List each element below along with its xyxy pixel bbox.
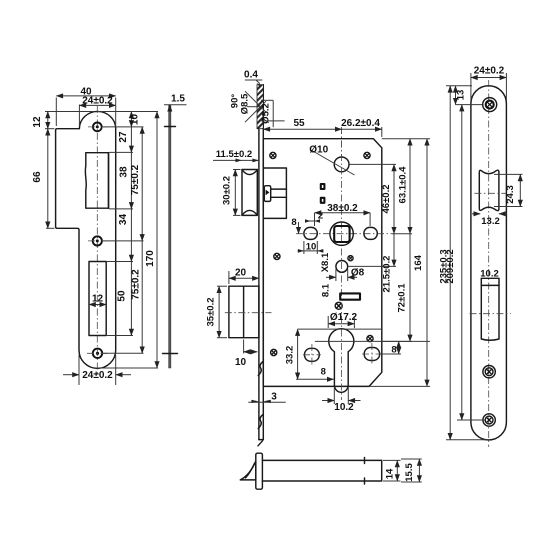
latch cutout inner line xyxy=(108,153,110,209)
svg-text:24.3: 24.3 xyxy=(505,185,516,204)
svg-text:24±0.2: 24±0.2 xyxy=(474,66,505,77)
dim 55 / 26.2 top xyxy=(341,127,343,156)
case screw right of cylinder xyxy=(367,336,373,342)
strip bottom hatch tick xyxy=(258,441,263,446)
dim 8 (hub left) xyxy=(298,222,300,234)
latch body side xyxy=(262,460,381,481)
svg-text:0.4: 0.4 xyxy=(244,70,258,81)
dim 46±0.2 xyxy=(393,164,395,233)
faceplate strip xyxy=(258,85,260,440)
dim 20 xyxy=(228,271,230,284)
side strip ticks xyxy=(165,126,176,128)
latch front arcs xyxy=(242,170,257,175)
svg-text:10: 10 xyxy=(235,357,247,368)
oval crosshairs xyxy=(303,354,321,356)
svg-text:20: 20 xyxy=(235,268,247,279)
dim 11.5±0.2 xyxy=(213,159,259,161)
svg-text:21.5±0.2: 21.5±0.2 xyxy=(382,256,393,293)
follower spring detail xyxy=(264,186,270,202)
dia 5.2 hole lines xyxy=(261,99,273,101)
svg-text:75±0.2: 75±0.2 xyxy=(130,164,141,195)
dim 24.3 xyxy=(494,173,523,175)
svg-text:46±0.2: 46±0.2 xyxy=(381,185,392,214)
dim 72±0.1 xyxy=(409,234,411,342)
svg-text:2: 2 xyxy=(318,211,323,222)
face plate outline xyxy=(471,86,507,440)
svg-text:30±0.2: 30±0.2 xyxy=(222,176,233,205)
svg-text:33.2: 33.2 xyxy=(285,346,296,365)
dim 3 faceplate xyxy=(248,401,285,403)
dim 38±0.2 xyxy=(369,213,371,226)
case screw low-left xyxy=(271,349,277,355)
dim 2 xyxy=(314,213,316,226)
cylinder oval left xyxy=(305,348,320,361)
dim 209±0.2 xyxy=(457,419,485,421)
faceplate section hatch xyxy=(257,85,263,129)
side strip (plate edge view) xyxy=(169,105,171,368)
dim 75 line 2 xyxy=(103,240,144,242)
svg-text:8: 8 xyxy=(391,345,396,356)
case screw top-right xyxy=(364,152,370,158)
body break ticks xyxy=(364,458,366,464)
svg-text:Ø8.5: Ø8.5 xyxy=(240,93,251,114)
svg-text:209±0.2: 209±0.2 xyxy=(445,249,456,283)
latch bevel nose xyxy=(240,461,256,480)
dim 13.2 xyxy=(472,213,480,215)
dim 35±0.2 xyxy=(217,285,227,287)
dim 164 xyxy=(426,139,428,387)
right dim extensions xyxy=(350,163,397,165)
dim 10 deadbolt xyxy=(243,340,245,354)
dim 12 left xyxy=(45,111,94,113)
small slot A xyxy=(321,184,325,189)
svg-text:34: 34 xyxy=(118,214,129,226)
roller notch xyxy=(479,170,499,210)
screw hole middle xyxy=(93,236,102,245)
strip break mark 1 xyxy=(258,362,263,376)
screw hole top xyxy=(93,123,102,132)
svg-text:8: 8 xyxy=(321,367,326,378)
latch cutout xyxy=(85,153,108,209)
handle hole left xyxy=(304,227,317,239)
cylinder oval right xyxy=(364,348,379,361)
latch front view xyxy=(242,170,257,216)
dim 8 right oval xyxy=(315,340,412,342)
screw hole bottom xyxy=(93,349,102,358)
strike plate outline xyxy=(56,111,116,368)
slot below dia8 xyxy=(340,293,360,299)
dim 40 xyxy=(55,98,57,127)
svg-text:10.2: 10.2 xyxy=(334,402,354,413)
case screw top-left xyxy=(270,152,276,158)
svg-text:13.2: 13.2 xyxy=(481,216,500,227)
countersink X callout xyxy=(245,91,266,112)
dia10 hole xyxy=(334,157,349,172)
bottom screw xyxy=(483,414,495,426)
svg-text:13: 13 xyxy=(456,90,467,101)
dim 63.1±0.4 xyxy=(409,139,411,234)
middle screw xyxy=(483,366,495,378)
svg-text:72±0.1: 72±0.1 xyxy=(397,283,408,313)
svg-text:12: 12 xyxy=(32,116,43,128)
notch centerline cross xyxy=(474,192,506,194)
bevel inner line xyxy=(246,464,255,478)
case screw near dia8 xyxy=(348,256,353,261)
follower square hole xyxy=(334,226,349,242)
dim 13 xyxy=(446,85,472,87)
dim chain right: line 1 xyxy=(97,111,158,113)
dim 170 line 3 xyxy=(100,367,158,369)
latch housing in case xyxy=(264,168,287,218)
dim 21.5±0.2 xyxy=(393,234,395,267)
slot cross line xyxy=(470,313,511,315)
deadbolt front view xyxy=(229,286,259,338)
case screw below slot xyxy=(335,302,342,309)
small slot B xyxy=(321,198,325,203)
hole crosshairs xyxy=(88,126,107,128)
strip break mark 2 xyxy=(258,415,263,429)
dim 8.1 under dia8 xyxy=(335,269,337,281)
dim 33.2 xyxy=(298,328,381,330)
svg-text:1.5: 1.5 xyxy=(171,94,185,105)
svg-text:26.2±0.4: 26.2±0.4 xyxy=(341,118,380,129)
svg-text:8.1: 8.1 xyxy=(321,283,332,297)
svg-text:3: 3 xyxy=(271,392,277,403)
svg-text:8: 8 xyxy=(291,217,296,228)
svg-text:27: 27 xyxy=(118,131,129,143)
svg-text:164: 164 xyxy=(413,254,424,271)
lock case outline with chamfered bottom-right corner xyxy=(263,139,382,387)
dim 30±0.2 xyxy=(233,169,241,171)
plate centerline xyxy=(96,106,98,374)
svg-text:14: 14 xyxy=(385,468,396,479)
svg-text:55: 55 xyxy=(293,118,305,129)
dim 24±0.2 bottom xyxy=(78,355,80,385)
plate centerline xyxy=(488,80,490,447)
svg-text:75±0.2: 75±0.2 xyxy=(131,269,142,300)
case screw mid-left xyxy=(274,253,280,259)
cylinder profile xyxy=(329,329,354,393)
dim 14 xyxy=(383,459,401,461)
handle hole right xyxy=(364,227,377,239)
svg-text:Ø17.2: Ø17.2 xyxy=(330,312,358,323)
svg-text:24±0.2: 24±0.2 xyxy=(82,96,113,107)
dim 10.2 cylinder xyxy=(333,388,335,404)
svg-text:66: 66 xyxy=(32,171,43,183)
vertical centerline xyxy=(341,127,343,400)
dia10 leader xyxy=(311,150,355,175)
svg-text:35±0.2: 35±0.2 xyxy=(206,298,217,327)
deadbolt centerline xyxy=(225,312,272,314)
dim 15.5 xyxy=(401,458,422,460)
dim 0.4 leader xyxy=(245,79,262,81)
top screw xyxy=(483,98,497,112)
svg-text:Ø10: Ø10 xyxy=(309,145,328,156)
svg-text:170: 170 xyxy=(145,250,156,267)
svg-text:38±0.2: 38±0.2 xyxy=(327,203,358,214)
follower hub xyxy=(330,222,353,245)
svg-text:50: 50 xyxy=(117,290,128,302)
svg-text:11.5±0.2: 11.5±0.2 xyxy=(216,149,252,160)
svg-text:12: 12 xyxy=(92,294,104,305)
svg-text:10: 10 xyxy=(130,114,141,126)
dim 66 left xyxy=(46,227,55,229)
dim 24±0.2 top xyxy=(78,105,80,127)
horizontal centerline hub xyxy=(296,233,392,235)
slot xyxy=(481,278,499,340)
deadbolt cutout xyxy=(89,262,106,336)
dim 1.5 xyxy=(164,104,187,106)
svg-text:38: 38 xyxy=(119,166,130,178)
dim 10 (below left hole) xyxy=(303,241,305,254)
dim 235±0.3 xyxy=(446,439,489,441)
deadbolt inner line xyxy=(243,286,245,338)
svg-text:15.5: 15.5 xyxy=(404,463,415,482)
faceplate strip bottom cap xyxy=(259,439,263,441)
latch tail lines xyxy=(271,188,287,190)
dia8 hole xyxy=(336,261,348,273)
dim 24±0.2 xyxy=(470,73,472,100)
svg-text:24±0.2: 24±0.2 xyxy=(82,370,113,381)
faceplate section xyxy=(256,453,263,489)
svg-text:63.1±0.4: 63.1±0.4 xyxy=(398,166,409,204)
svg-text:10: 10 xyxy=(306,241,317,252)
svg-text:X8.1: X8.1 xyxy=(320,252,331,272)
dim 12 cutout2 xyxy=(89,304,106,306)
